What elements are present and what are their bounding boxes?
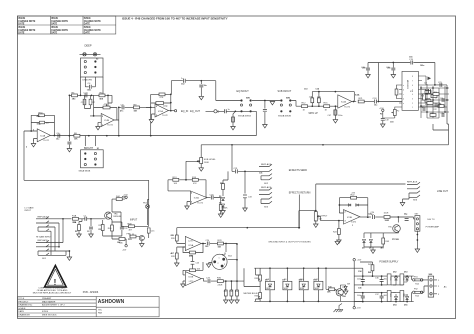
- diode D5: [363, 240, 366, 243]
- svg-text:D2: D2: [219, 203, 221, 205]
- connector SK8 pin stubs: [434, 280, 437, 294]
- electrolytic C8 below bus: [68, 136, 70, 141]
- svg-text:47K: 47K: [160, 97, 164, 99]
- svg-text:R19: R19: [434, 92, 437, 94]
- junction pot top: [315, 210, 317, 212]
- ground C33: [243, 208, 248, 211]
- svg-text:IC3B: IC3B: [347, 217, 352, 219]
- svg-text:R31: R31: [224, 291, 227, 293]
- wire R3: [102, 220, 104, 236]
- resistor R7 vertical: [89, 99, 92, 105]
- capacitor C2: [89, 227, 93, 229]
- svg-text:SW2A SW2B: SW2A SW2B: [278, 115, 291, 118]
- bulb D8: [266, 268, 275, 301]
- resistor R30: [217, 280, 223, 283]
- wire electro stubs: [381, 276, 383, 302]
- svg-text:FAX: FAX: [98, 312, 103, 315]
- ground IC4A plus input: [34, 139, 38, 144]
- svg-text:R2: R2: [75, 231, 77, 233]
- wire EQ row right drop: [108, 95, 112, 107]
- ground jack sleeve: [67, 257, 72, 260]
- electrolytic C23 body: [186, 256, 200, 271]
- ground VR3: [315, 220, 317, 224]
- junction sub rail: [185, 179, 187, 181]
- junction top loop: [200, 80, 202, 82]
- resistor R46: [111, 225, 114, 231]
- junction dots mid bus: [69, 135, 152, 137]
- wire C20 to R25: [375, 216, 383, 218]
- junction meter: [225, 243, 238, 282]
- svg-text:SDM: SDM: [284, 288, 288, 290]
- svg-text:+15V: +15V: [379, 108, 384, 110]
- junction psu top: [362, 275, 408, 277]
- svg-text:PCB - AP2006: PCB - AP2006: [83, 291, 99, 294]
- svg-text:D12: D12: [393, 272, 396, 274]
- svg-text:PROJECT: PROJECT: [18, 301, 29, 303]
- svg-text:INPUT: INPUT: [130, 219, 138, 222]
- resistor R32: [230, 290, 233, 296]
- svg-text:D9: D9: [282, 279, 284, 281]
- svg-text:MAG MAKER: MAG MAKER: [42, 300, 56, 303]
- diode D13: [406, 277, 409, 280]
- wire R52: [223, 171, 228, 196]
- ground C18: [366, 75, 371, 78]
- diode D4 inline: [356, 204, 359, 206]
- svg-text:SK8: SK8: [429, 274, 433, 276]
- capacitor C30: [211, 196, 213, 200]
- svg-text:ZTX108: ZTX108: [392, 239, 399, 241]
- svg-text:DATE: DATE: [51, 32, 58, 35]
- svg-text:POWER AMP: POWER AMP: [426, 225, 440, 228]
- wire diode stubs: [391, 276, 407, 302]
- svg-text:C18: C18: [362, 68, 365, 70]
- svg-text:CHANGE NOTE: CHANGE NOTE: [51, 20, 68, 23]
- IC6 sub-bass processor box: [402, 71, 418, 110]
- ground pot bodies: [335, 241, 340, 244]
- resistor R3: [101, 225, 104, 231]
- svg-text:R20: R20: [428, 101, 431, 103]
- svg-text:C13: C13: [304, 89, 307, 91]
- capacitor C19: [381, 118, 385, 120]
- diode D6: [369, 240, 372, 243]
- svg-text:R37: R37: [431, 113, 434, 115]
- resistor R1A 1M: [72, 217, 78, 220]
- svg-text:DATE: DATE: [84, 32, 91, 35]
- capacitor C12 1u: [183, 79, 185, 83]
- capacitor C34: [361, 280, 365, 282]
- pot VR2 SUB LEVEL: [197, 158, 203, 164]
- svg-text:R1A: R1A: [72, 215, 77, 218]
- svg-text:ISSUE: ISSUE: [51, 27, 58, 29]
- resistor R15: [324, 105, 330, 108]
- capacitor C6 on bus: [58, 134, 60, 138]
- junction IC2A apex: [353, 101, 355, 103]
- wire IC5A feedback: [183, 244, 206, 253]
- wire cluster mesh: [421, 84, 449, 118]
- jack SK2 effects send: [259, 164, 272, 180]
- resistor R52 send shunt: [222, 184, 225, 190]
- ground IC5B plus: [181, 284, 186, 287]
- wire EQ return right leg: [206, 111, 257, 135]
- wire R44 to drain: [112, 199, 126, 213]
- svg-text:D10: D10: [299, 279, 302, 281]
- svg-text:ISSUE: ISSUE: [84, 18, 91, 20]
- resistor R19: [431, 95, 437, 98]
- svg-text:2: 2: [102, 116, 103, 118]
- svg-text:D6: D6: [369, 248, 371, 250]
- ground R28: [175, 263, 180, 266]
- zener D7: [344, 286, 347, 289]
- svg-text:REPLACE: REPLACE: [261, 186, 272, 189]
- junction main bus: [231, 144, 324, 146]
- svg-text:C22: C22: [440, 98, 443, 100]
- ground C10: [231, 127, 236, 130]
- wire R21 to C24: [364, 101, 374, 103]
- svg-text:C19: C19: [390, 122, 393, 124]
- svg-text:D1: D1: [219, 196, 221, 198]
- svg-text:AC: AC: [444, 286, 447, 289]
- wire R35 R33 mid: [244, 268, 260, 301]
- svg-text:90Hz LP: 90Hz LP: [309, 112, 319, 115]
- diode D15: [406, 297, 409, 300]
- warning triangle: [45, 266, 67, 288]
- capacitor C14a 1n8: [318, 98, 321, 103]
- ground IC3A plus: [187, 202, 190, 207]
- wire main bus: [201, 124, 448, 158]
- capacitor C35: [361, 296, 365, 298]
- ground zener: [343, 291, 348, 294]
- svg-text:DRAWN BY: DRAWN BY: [18, 314, 30, 317]
- wire IC4A feedback loops: [24, 115, 54, 135]
- fuse FS2: [413, 291, 423, 293]
- svg-text:C20: C20: [368, 214, 371, 216]
- svg-text:220K: 220K: [223, 208, 228, 210]
- resistor R31: [224, 290, 227, 296]
- junction tr4: [325, 267, 327, 269]
- resistor R33: [259, 293, 262, 299]
- labels cluster: [421, 83, 444, 115]
- resistor R11 47K feedback: [159, 93, 165, 96]
- IC6 pin name texts: [403, 76, 413, 109]
- svg-text:3: 3: [191, 202, 192, 204]
- resistor R14 47K: [192, 178, 198, 181]
- capacitor C9 input line: [122, 105, 124, 109]
- preset PR1: [130, 234, 136, 238]
- resistor R9 input line: [134, 106, 140, 109]
- svg-text:ISSUE: ISSUE: [18, 18, 25, 20]
- junction dots top rail: [378, 62, 395, 103]
- junction send: [244, 171, 246, 173]
- svg-text:INPUT: INPUT: [25, 210, 32, 212]
- wire send drop from bus: [232, 145, 235, 172]
- ground VR2: [200, 164, 202, 168]
- resistor R29: [217, 242, 223, 245]
- wire EQ row bus: [69, 94, 112, 96]
- svg-text:C2: C2: [87, 231, 89, 233]
- component value labels layer: [26, 57, 432, 307]
- svg-text:-15V: -15V: [357, 308, 362, 310]
- op-amp IC3A: [190, 191, 207, 205]
- trimmer P2 below IC6: [391, 110, 396, 116]
- svg-text:D5: D5: [362, 248, 364, 250]
- switch S1 box: [81, 150, 104, 168]
- wire LP feedback rail: [312, 92, 354, 107]
- junction EQ return: [235, 110, 237, 112]
- electrolytic C16: [392, 63, 394, 75]
- svg-text:P2: P2: [380, 114, 382, 116]
- svg-text:7815: 7815: [402, 277, 404, 281]
- ground output network: [371, 250, 376, 253]
- svg-text:D7: D7: [348, 284, 350, 286]
- capacitor C11 100p feedback: [156, 102, 164, 105]
- wire bus riser to pot: [299, 211, 316, 228]
- wire pot wiper to IC3B: [319, 216, 344, 220]
- svg-text:R18: R18: [421, 96, 424, 98]
- ground IC4B plus input: [98, 122, 101, 126]
- svg-text:SCALE: SCALE: [18, 307, 26, 310]
- junction IC4A out: [54, 135, 56, 137]
- ground R24: [337, 240, 342, 243]
- svg-text:R34: R34: [235, 291, 238, 293]
- power +15V sub: [382, 109, 384, 111]
- svg-text:6K8: 6K8: [100, 98, 103, 100]
- resistor R54 cluster: [423, 94, 426, 100]
- svg-text:7915: 7915: [389, 293, 391, 297]
- resistor R41: [371, 265, 374, 271]
- switch SW2 contacts col A: [280, 99, 282, 112]
- junction LP rail: [318, 91, 336, 93]
- svg-text:3: 3: [33, 130, 34, 132]
- svg-text:D13: D13: [404, 272, 407, 274]
- svg-text:SDM: SDM: [266, 288, 270, 290]
- warning note text: [33, 287, 72, 295]
- wire IC5B out: [201, 279, 207, 282]
- capacitor C43 cluster: [442, 113, 444, 117]
- ground diode chain: [222, 207, 224, 211]
- svg-text:TL072: TL072: [43, 140, 50, 142]
- trimmer P1 47K: [103, 104, 110, 109]
- svg-text:3: 3: [224, 264, 225, 266]
- svg-text:7815: 7815: [389, 277, 391, 281]
- ground C16: [391, 75, 396, 78]
- issue table: [18, 16, 116, 34]
- svg-text:TL072: TL072: [351, 222, 358, 224]
- svg-text:IC2A: IC2A: [341, 101, 346, 104]
- svg-text:S1: S1: [97, 148, 99, 150]
- ground output section: [415, 249, 420, 252]
- capacitor C5 vertical: [83, 99, 86, 105]
- op-amp IC2A: [338, 95, 352, 108]
- wire IC6 top rail: [378, 63, 435, 102]
- wire VR2 wiper left: [186, 161, 198, 180]
- fuse FS1: [413, 279, 423, 281]
- XLR socket SK4: [212, 254, 227, 269]
- test point circle EQ out: [175, 110, 177, 112]
- capacitor C24c series: [207, 242, 209, 246]
- junction dots cluster: [420, 84, 448, 113]
- ground XLR: [209, 263, 212, 265]
- svg-text:ISSUE: ISSUE: [84, 27, 91, 29]
- ground C14: [263, 125, 268, 128]
- svg-text:3: 3: [156, 115, 157, 117]
- wire IC1A feedback loops: [146, 94, 171, 135]
- wire sub resistors rail: [168, 180, 206, 198]
- ground C13: [199, 96, 204, 99]
- pot VR3 OUTPUT: [314, 212, 320, 221]
- arrow signal mark: [428, 77, 432, 81]
- resistor R6 on bus: [74, 134, 80, 137]
- capacitor C14 to ground mid: [264, 101, 266, 125]
- DIN symbol D: [214, 110, 220, 114]
- svg-text:SB1A SB1B: SB1A SB1B: [79, 170, 91, 173]
- IC6 left pins: [399, 85, 402, 107]
- switch S1 contact column B: [94, 152, 96, 165]
- svg-text:TL072: TL072: [197, 203, 204, 205]
- ground TR2: [140, 244, 145, 247]
- wire cap stubs psu: [362, 276, 364, 302]
- resistor R34: [236, 290, 239, 296]
- svg-text:ISSUE 4 - R48 CHANGED FROM 10K: ISSUE 4 - R48 CHANGED FROM 10K TO 4K7 TO…: [122, 17, 228, 21]
- resistor R5: [72, 94, 78, 97]
- capacitor C24b: [375, 100, 377, 104]
- IC6 right pins: [418, 76, 422, 107]
- capacitor C42 cluster: [423, 107, 425, 111]
- wire EQ mid bus: [50, 135, 256, 137]
- electrolytic C33: [243, 171, 247, 208]
- capacitor C8b 1u on EQ return: [224, 109, 226, 113]
- svg-text:TL072: TL072: [162, 115, 169, 117]
- svg-text:SW1A SW1B: SW1A SW1B: [238, 115, 251, 118]
- svg-text:DEEP: DEEP: [85, 44, 92, 48]
- wire top loop: [171, 81, 240, 101]
- resistor R4: [99, 94, 105, 97]
- junction psu mid: [362, 284, 408, 302]
- resistor R28 4K7: [175, 253, 178, 259]
- ground C47: [333, 120, 338, 123]
- switch S2 box: [81, 58, 104, 77]
- svg-text:3: 3: [345, 221, 346, 223]
- capacitor C4: [89, 85, 91, 89]
- bulb D9: [283, 268, 292, 301]
- capacitor C41 cluster: [442, 98, 444, 102]
- regulator REG1: [387, 274, 391, 285]
- svg-text:1: 1: [352, 225, 353, 227]
- svg-text:2: 2: [156, 106, 157, 108]
- svg-text:EQ IN/OUT: EQ IN/OUT: [237, 90, 250, 93]
- wire meter top rail: [254, 268, 362, 275]
- capacitor C47 100n gray: [334, 110, 337, 115]
- resistor R22 feedback: [351, 196, 357, 199]
- svg-text:DPA DPB: DPA DPB: [83, 79, 93, 82]
- svg-text:-15V: -15V: [122, 249, 127, 251]
- svg-text:2: 2: [191, 193, 192, 195]
- switch S1 contact column A: [84, 152, 86, 165]
- svg-text:BF244B: BF244B: [114, 216, 122, 218]
- svg-text:R41: R41: [368, 271, 371, 274]
- svg-text:PREAMP: PREAMP: [42, 297, 52, 300]
- wire C31 to send jack: [238, 170, 259, 172]
- wire line out riser: [316, 184, 406, 211]
- junction R24: [338, 220, 340, 222]
- junction IC4A input: [30, 130, 32, 132]
- wire IC3B feedback loop: [339, 198, 367, 218]
- svg-text:REPLACE: REPLACE: [38, 239, 49, 242]
- resistor R48 4K7: [129, 225, 135, 228]
- svg-text:4K7: 4K7: [171, 252, 174, 255]
- svg-text:D15: D15: [404, 305, 407, 307]
- bulb D11: [314, 268, 323, 301]
- wire deep box to C4: [81, 77, 104, 95]
- wire bright drops: [85, 136, 95, 146]
- electrolytic C36: [380, 280, 384, 282]
- wire R48 net: [112, 200, 149, 239]
- diode D3 inline: [348, 204, 351, 206]
- resistor R25 100R: [384, 216, 390, 219]
- svg-text:SW1: SW1: [246, 98, 250, 100]
- diode D14: [395, 297, 398, 300]
- capacitor C22: [435, 103, 437, 107]
- resistor R13 10K: [173, 178, 179, 181]
- svg-text:D11: D11: [313, 279, 316, 281]
- op-amp IC4A: [37, 129, 50, 142]
- resistor R26 22K: [175, 235, 178, 241]
- wire psu top rail: [354, 261, 411, 285]
- junction DI bus: [246, 227, 300, 229]
- capacitor C7 feedback: [39, 121, 44, 124]
- wire R30 to meter resistors: [211, 244, 244, 290]
- wire output lower rail: [364, 232, 399, 238]
- svg-text:REPLACE: REPLACE: [38, 215, 49, 218]
- wire LP input: [299, 105, 338, 107]
- wire sk7 ground leg: [416, 231, 418, 249]
- resistor R44: [116, 198, 122, 201]
- svg-text:TL072: TL072: [344, 106, 351, 108]
- title block: [18, 297, 160, 317]
- resistor R12: [302, 105, 308, 108]
- svg-text:SW2: SW2: [286, 98, 290, 100]
- resistor R56 cluster: [438, 105, 444, 108]
- connector SK8: [428, 276, 434, 297]
- svg-text:IC2A: IC2A: [355, 94, 360, 97]
- svg-text:R32: R32: [229, 291, 232, 293]
- junction jacks: [58, 218, 70, 252]
- wire C30 to R57: [214, 198, 221, 205]
- capacitor C13a 1n8: [311, 98, 314, 103]
- ground C19: [381, 124, 386, 127]
- svg-text:IC5B: IC5B: [188, 277, 193, 279]
- resistor R20: [425, 99, 431, 102]
- junction out node: [397, 216, 399, 218]
- bulb D10: [299, 268, 308, 301]
- wire TR1 source: [111, 218, 113, 236]
- svg-text:DATE: DATE: [18, 310, 24, 313]
- svg-text:MUST BE REPLACED ACCORDINGLY: MUST BE REPLACED ACCORDINGLY: [33, 292, 72, 295]
- svg-text:1: 1: [33, 140, 34, 142]
- regulator REG2: [400, 274, 404, 285]
- switch S2 pole contacts: [80, 53, 101, 56]
- svg-text:CHANGE NOTE: CHANGE NOTE: [18, 20, 35, 23]
- svg-text:R1A: R1A: [73, 221, 77, 224]
- wire PD1 drop: [147, 200, 149, 226]
- ground lineout: [400, 203, 405, 206]
- op-amp IC1A: [155, 104, 169, 117]
- svg-text:100K: 100K: [204, 162, 210, 164]
- wire TR2 base: [130, 234, 142, 244]
- capacitor C26 22p: [405, 219, 409, 221]
- power -15V input stage: [125, 239, 126, 245]
- issue table cell texts: [18, 18, 101, 35]
- regulator REG4: [400, 291, 404, 302]
